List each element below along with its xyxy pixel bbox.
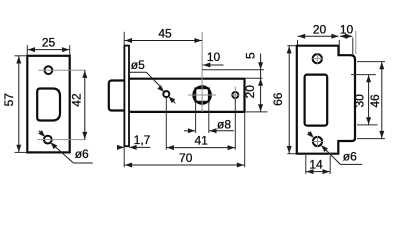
dimension 20 line right (298, 35, 339, 37)
svg-text:20: 20 (243, 85, 257, 99)
dimension 41 extension lines (165, 98, 167, 150)
bottom hole center line (37, 139, 86, 141)
dimension 30 line (368, 75, 370, 125)
svg-text:10: 10 (207, 50, 221, 64)
strike plate outline (297, 46, 355, 154)
diameter 6 leader left view (39, 131, 44, 136)
svg-text:42: 42 (69, 93, 83, 107)
dimension 10 line right (340, 35, 352, 37)
svg-text:25: 25 (42, 36, 56, 50)
dimension 14 line (306, 171, 330, 173)
diameter 6 leader right view (308, 132, 312, 136)
faceplate front view outline (27, 56, 69, 153)
svg-text:46: 46 (368, 94, 382, 108)
faceplate edge view (124, 46, 129, 147)
diameter 8 dimension (184, 130, 195, 132)
svg-text:41: 41 (195, 134, 209, 148)
dimension 57 line (18, 56, 20, 153)
dimension 25 extension lines (26, 45, 28, 55)
case fixing hole (232, 92, 238, 98)
body bottom edge extension right (246, 111, 268, 113)
strike top screw hole (313, 54, 322, 63)
dimension 30 extension lines (351, 74, 376, 76)
top hole center line (38, 69, 86, 71)
svg-text:66: 66 (271, 92, 285, 106)
dimension 10 line middle (203, 64, 224, 66)
faceplate top screw hole (45, 66, 53, 74)
latch bolt (109, 81, 125, 111)
strike top hole cross (312, 58, 323, 60)
svg-text:5: 5 (244, 52, 258, 59)
faceplate bottom screw hole (44, 136, 52, 144)
svg-text:1,7: 1,7 (134, 133, 151, 147)
dimension 57 extension lines (15, 55, 27, 57)
extension line top right (202, 69, 264, 71)
spindle vertical center line (201, 32, 203, 112)
dimension 41 line (166, 147, 235, 149)
svg-text:10: 10 (340, 22, 354, 36)
latch case body (129, 79, 244, 112)
diameter 5 leader (128, 71, 146, 73)
svg-text:ø6: ø6 (343, 150, 357, 164)
dimension 70 line (124, 164, 244, 166)
svg-text:30: 30 (353, 94, 367, 108)
svg-text:ø5: ø5 (131, 58, 145, 72)
faceplate latch cutout (37, 89, 60, 121)
diameter 8 extension lines (195, 102, 197, 133)
spindle square hole (195, 88, 208, 101)
spindle horizontal center line (188, 94, 216, 96)
strike bottom hole cross (312, 141, 323, 143)
dimension 25 line (27, 49, 69, 51)
svg-text:ø8: ø8 (217, 118, 231, 132)
dimension 1.7 line (117, 146, 124, 148)
svg-text:20: 20 (313, 22, 327, 36)
dimension 5 and 20 line (260, 54, 262, 70)
dimension 70 extension lines (123, 146, 125, 167)
svg-text:ø6: ø6 (75, 147, 89, 161)
strike plate latch cutout (305, 75, 328, 126)
dimension 42 line (84, 70, 86, 139)
body top edge extension right (245, 77, 262, 79)
fixing hole crosshair (231, 94, 240, 96)
strike bottom screw hole (313, 137, 322, 146)
dimension 45 extension line (123, 32, 125, 45)
dimension 20 10 extension lines right (297, 40, 299, 45)
svg-text:45: 45 (158, 27, 172, 41)
spindle hole circle diameter 8 (193, 86, 210, 103)
dimension 14 extension lines (305, 155, 307, 174)
dimension 66 line (288, 46, 290, 154)
svg-text:70: 70 (179, 151, 193, 165)
dimension 46 extension lines (357, 61, 385, 63)
svg-text:57: 57 (2, 93, 16, 107)
hole diameter 5 (163, 91, 169, 97)
dimension 45 line (124, 40, 202, 42)
dimension 46 line (381, 62, 383, 139)
dimension 66 extension lines (287, 45, 296, 47)
svg-text:14: 14 (309, 157, 323, 171)
